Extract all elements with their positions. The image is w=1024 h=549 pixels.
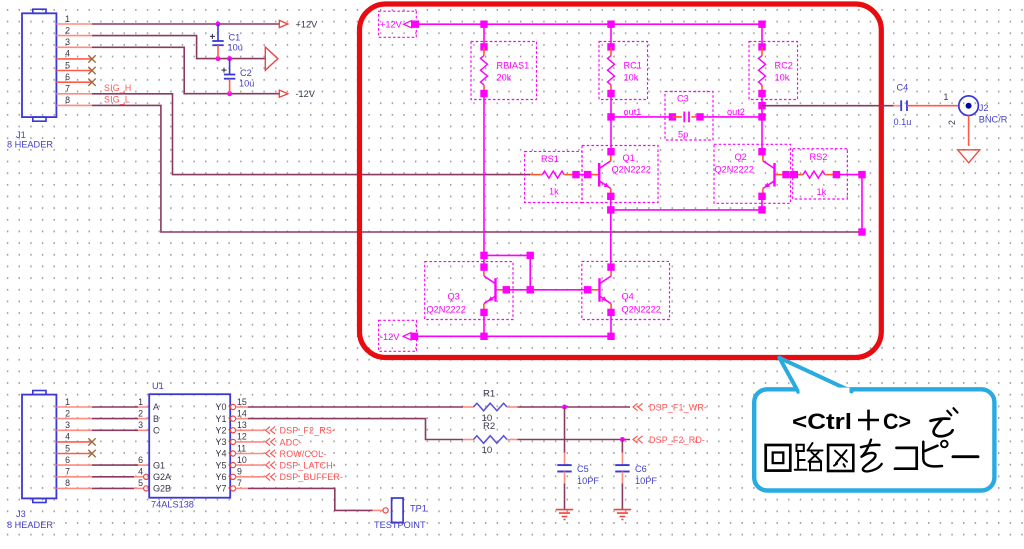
power arrow symbol (unnamed, mid rail) bbox=[265, 47, 278, 70]
no-connect X on J1 pins 4,5,6 bbox=[88, 55, 95, 86]
svg-text:RBIAS1: RBIAS1 bbox=[497, 60, 530, 70]
svg-text:DSP_F2_RD-: DSP_F2_RD- bbox=[649, 435, 705, 445]
U1 right pin names Y0-Y7, bubbles, numbers bbox=[215, 397, 246, 494]
svg-text:<Ctrl: <Ctrl bbox=[792, 409, 852, 434]
svg-text:Y1: Y1 bbox=[215, 414, 226, 424]
svg-text:Y4: Y4 bbox=[215, 449, 226, 459]
wire J2 pin 2 to ground bbox=[968, 116, 970, 147]
svg-text:G2B: G2B bbox=[153, 484, 171, 494]
transistor Q1 Q2N2222 bbox=[582, 146, 658, 203]
resistor R1 10 bbox=[463, 389, 518, 424]
svg-text:Y6: Y6 bbox=[215, 472, 226, 482]
svg-text:SIG_L: SIG_L bbox=[104, 95, 130, 105]
svg-text:C5: C5 bbox=[577, 464, 589, 474]
svg-text:Q2: Q2 bbox=[735, 152, 747, 162]
svg-text:Y3: Y3 bbox=[215, 437, 226, 447]
power symbol +12V (J1 side) bbox=[279, 19, 318, 29]
junction at C6 tap bbox=[620, 437, 625, 442]
wire Y0 to R1 bbox=[236, 406, 248, 408]
svg-text:5: 5 bbox=[65, 60, 70, 70]
svg-text:3: 3 bbox=[138, 420, 143, 430]
svg-text:TP1: TP1 bbox=[410, 504, 427, 514]
svg-text:1: 1 bbox=[65, 397, 70, 407]
svg-text:5p: 5p bbox=[678, 130, 688, 140]
svg-text:8 HEADER: 8 HEADER bbox=[7, 520, 53, 530]
capacitor C2 10u bbox=[222, 59, 255, 94]
resistor RBIAS1 20k bbox=[471, 24, 537, 99]
svg-text:A: A bbox=[153, 402, 159, 412]
wire out2 to C4 bbox=[762, 105, 894, 107]
svg-text:-12V: -12V bbox=[296, 89, 316, 99]
connector J3 bbox=[7, 391, 56, 531]
svg-text:C: C bbox=[153, 426, 160, 436]
wire base rail Q3-Q4 bbox=[506, 289, 587, 291]
svg-text:B: B bbox=[153, 414, 159, 424]
wire net SIG_H from J1 pin 7 bbox=[92, 94, 530, 175]
svg-text:DSP_F2_RS-: DSP_F2_RS- bbox=[280, 426, 336, 436]
bubble text line 1: <Ctrl+C> de bbox=[792, 408, 958, 436]
off-page connector DSP_F2_RS- (Y2) bbox=[236, 426, 335, 436]
svg-text:Q4: Q4 bbox=[622, 292, 634, 302]
svg-text:6: 6 bbox=[138, 455, 143, 465]
resistor RC1 10k bbox=[599, 24, 648, 99]
wire Y7 to TP1 bbox=[236, 487, 248, 489]
J3 pin stubs and pin numbers 1-8 bbox=[56, 397, 92, 489]
svg-text:Y5: Y5 bbox=[215, 460, 226, 470]
svg-text:15: 15 bbox=[237, 397, 247, 407]
svg-text:1: 1 bbox=[944, 92, 949, 102]
svg-text:BNC/R: BNC/R bbox=[979, 114, 1008, 124]
bubble text line 2: kairozu wo kopii bbox=[766, 440, 978, 472]
svg-text:Q2N2222: Q2N2222 bbox=[427, 305, 466, 315]
junction at C5 tap bbox=[562, 405, 567, 410]
svg-text:C3: C3 bbox=[677, 94, 689, 104]
svg-text:2: 2 bbox=[947, 120, 957, 125]
power symbol -12V (selected) bbox=[379, 320, 419, 351]
junction C1 bottom bbox=[216, 56, 221, 61]
wire Q1 emitter down bbox=[610, 196, 612, 210]
svg-text:G2A: G2A bbox=[153, 472, 171, 482]
IC U1 74ALS138 bbox=[149, 381, 230, 509]
wire +12V top rail bbox=[415, 23, 762, 25]
resistor RS2 1k bbox=[791, 149, 848, 199]
svg-text:C1: C1 bbox=[229, 32, 241, 42]
junction C2 bottom bbox=[227, 91, 232, 96]
svg-text:74ALS138: 74ALS138 bbox=[151, 500, 194, 510]
wire Y1 to R2 bbox=[236, 418, 248, 420]
svg-text:10k: 10k bbox=[624, 73, 639, 83]
testpoint TP1 bbox=[374, 498, 427, 530]
svg-text:12: 12 bbox=[237, 432, 247, 442]
svg-text:6: 6 bbox=[65, 455, 70, 465]
svg-text:C2: C2 bbox=[240, 68, 252, 78]
svg-text:10k: 10k bbox=[775, 73, 790, 83]
svg-text:R2: R2 bbox=[483, 421, 495, 432]
wire R2 to DSP_F2_RD- bbox=[518, 439, 631, 441]
svg-text:0.1u: 0.1u bbox=[894, 117, 912, 127]
svg-text:Q1: Q1 bbox=[623, 153, 635, 163]
svg-text:J3: J3 bbox=[16, 509, 26, 519]
capacitor C6 10PF bbox=[615, 440, 657, 510]
wire Q2 base to RS2 bbox=[786, 174, 794, 176]
off-page connector DSP_BUFFER- (Y6) bbox=[236, 472, 344, 482]
svg-text:7: 7 bbox=[65, 84, 70, 94]
transistor Q4 Q2N2222 bbox=[582, 261, 670, 319]
wire net SIG_L from J1 pin 8 bbox=[92, 105, 862, 232]
resistor RC2 10k bbox=[749, 24, 798, 99]
svg-text:13: 13 bbox=[237, 420, 247, 430]
svg-text:+12V: +12V bbox=[296, 19, 319, 29]
wire Q4 emitter to -12V rail bbox=[610, 312, 612, 336]
wire Q1 emitter to Q4 collector bbox=[610, 210, 612, 267]
wire Q3 collector loop to bases bbox=[484, 255, 530, 289]
svg-text:7: 7 bbox=[237, 478, 242, 488]
svg-text:ADC-: ADC- bbox=[280, 437, 302, 447]
red highlight rounded rectangle bbox=[360, 4, 882, 358]
capacitor C1 10u bbox=[210, 24, 243, 59]
svg-text:C>: C> bbox=[883, 409, 911, 434]
svg-text:Q3: Q3 bbox=[448, 292, 460, 302]
svg-text:11: 11 bbox=[237, 443, 246, 453]
wire net -12V from J1 pin 3 bbox=[92, 47, 279, 93]
svg-text:6: 6 bbox=[65, 72, 70, 82]
off-page connector ADC- (Y3) bbox=[236, 437, 302, 447]
svg-text:7: 7 bbox=[65, 467, 70, 477]
resistor R2 10 bbox=[463, 421, 518, 456]
svg-text:4: 4 bbox=[65, 432, 70, 442]
wire R1 to DSP_F1_WR- bbox=[518, 406, 631, 408]
svg-text:9: 9 bbox=[237, 467, 242, 477]
wire RS1 to Q1 base bbox=[576, 174, 588, 176]
wire Q3 collector up bbox=[483, 255, 485, 267]
svg-text:U1: U1 bbox=[152, 381, 164, 391]
svg-text:1: 1 bbox=[138, 397, 143, 407]
svg-text:3: 3 bbox=[65, 420, 70, 430]
svg-text:10: 10 bbox=[237, 455, 247, 465]
U1 left pin names and numbers bbox=[138, 397, 171, 494]
svg-text:Q2N2222: Q2N2222 bbox=[715, 165, 754, 175]
connector J2 BNC/R bbox=[959, 96, 1008, 124]
svg-text:RS1: RS1 bbox=[541, 154, 559, 164]
ground symbol at J2 bbox=[958, 150, 980, 163]
svg-text:C6: C6 bbox=[635, 464, 647, 474]
svg-text:10PF: 10PF bbox=[577, 476, 599, 486]
svg-text:8 HEADER: 8 HEADER bbox=[7, 139, 53, 149]
connector J1 bbox=[7, 9, 56, 149]
off-page connector ROW/COL- (Y4) bbox=[236, 449, 327, 459]
wire C4 to J2 pin 1 bbox=[907, 105, 959, 107]
off-page connector DSP_F2_RD- bbox=[633, 436, 643, 443]
off-page connector DSP_LATCH- (Y5) bbox=[236, 461, 336, 471]
svg-text:2: 2 bbox=[65, 408, 70, 418]
svg-text:10u: 10u bbox=[228, 43, 243, 53]
junction C2 top bbox=[227, 56, 232, 61]
wire net +12V from J1 pin 1 bbox=[92, 23, 279, 25]
ground symbol at C5 bbox=[556, 510, 573, 520]
wire RC2 bottom to Q2 collector, node out2 bbox=[761, 94, 763, 152]
svg-text:8: 8 bbox=[65, 95, 70, 105]
junction squares on top rail bbox=[480, 21, 487, 28]
off-page connector DSP_F1_WR- bbox=[633, 403, 643, 410]
svg-text:-12V: -12V bbox=[380, 332, 400, 342]
svg-text:10PF: 10PF bbox=[635, 476, 657, 486]
wire emitter rail Q1-Q2 bbox=[611, 209, 762, 211]
wires J3 pins 7,8 to U1 G2A,G2B (bubbled) bbox=[92, 474, 149, 491]
wire Q2 emitter down bbox=[761, 196, 763, 210]
svg-text:RS2: RS2 bbox=[810, 152, 828, 162]
wire RBIAS1 bottom to Q3 collector bbox=[483, 94, 485, 256]
capacitor C5 10PF bbox=[557, 407, 599, 510]
svg-text:14: 14 bbox=[237, 408, 247, 418]
svg-text:Q2N2222: Q2N2222 bbox=[612, 165, 651, 175]
svg-text:5: 5 bbox=[65, 443, 70, 453]
svg-text:10: 10 bbox=[482, 445, 493, 456]
svg-text:SIG_H: SIG_H bbox=[104, 83, 131, 93]
ground symbol at C6 bbox=[614, 510, 631, 520]
svg-text:R1: R1 bbox=[483, 389, 495, 400]
capacitor C4 0.1u bbox=[894, 83, 912, 127]
svg-text:Y0: Y0 bbox=[215, 402, 226, 412]
wire from J1 pin 2 to mid power rail bbox=[92, 36, 265, 59]
svg-text:DSP_LATCH-: DSP_LATCH- bbox=[280, 461, 336, 471]
svg-text:C4: C4 bbox=[897, 83, 909, 93]
svg-text:RC1: RC1 bbox=[624, 60, 642, 70]
speech bubble callout bbox=[754, 358, 994, 491]
svg-text:RC2: RC2 bbox=[775, 60, 793, 70]
J1 pin stubs and pin numbers 1-8 bbox=[56, 14, 92, 106]
svg-text:+12V: +12V bbox=[380, 20, 403, 30]
svg-text:5: 5 bbox=[138, 478, 143, 488]
svg-text:4: 4 bbox=[138, 467, 143, 477]
svg-text:J2: J2 bbox=[979, 103, 989, 113]
svg-text:J1: J1 bbox=[16, 130, 26, 140]
power symbol -12V (J1 side) bbox=[279, 89, 315, 99]
svg-text:4: 4 bbox=[65, 49, 70, 59]
svg-text:ROW/COL-: ROW/COL- bbox=[280, 449, 327, 459]
svg-text:TESTPOINT: TESTPOINT bbox=[374, 520, 426, 530]
transistor Q2 Q2N2222 bbox=[714, 144, 791, 203]
wire C3 to node out2 bbox=[700, 116, 762, 118]
wires J3 pins 1,2,3,6 to U1 A,B,C,G1 bbox=[92, 407, 149, 465]
svg-text:Y2: Y2 bbox=[215, 426, 226, 436]
svg-text:1k: 1k bbox=[549, 187, 559, 197]
svg-text:2: 2 bbox=[65, 25, 70, 35]
svg-text:10u: 10u bbox=[239, 78, 254, 88]
svg-text:G1: G1 bbox=[153, 460, 165, 470]
svg-text:out1: out1 bbox=[624, 107, 642, 117]
wire -12V rail (mirror emitters) bbox=[415, 335, 612, 337]
svg-text:DSP_F1_WR-: DSP_F1_WR- bbox=[649, 402, 707, 412]
resistor RS1 1k bbox=[525, 151, 582, 202]
power symbol +12V (selected, in circle) bbox=[379, 11, 420, 37]
capacitor C3 5p bbox=[665, 92, 713, 141]
junction at C1 top bbox=[216, 22, 221, 27]
wire Q3 emitter to -12V rail bbox=[483, 312, 485, 336]
transistor Q3 Q2N2222 (mirrored) bbox=[425, 262, 513, 320]
svg-text:DSP_BUFFER-: DSP_BUFFER- bbox=[280, 472, 344, 482]
svg-text:2: 2 bbox=[138, 408, 143, 418]
wire RS2 right to SIG_L corner bbox=[836, 175, 862, 232]
svg-text:1: 1 bbox=[65, 14, 70, 24]
svg-text:8: 8 bbox=[65, 478, 70, 488]
node out1 wire to C3 bbox=[611, 116, 672, 118]
no-connect X on J3 pins 4,5 bbox=[88, 438, 95, 445]
svg-text:3: 3 bbox=[65, 37, 70, 47]
svg-text:20k: 20k bbox=[497, 73, 512, 83]
wire RC1 bottom to Q1 collector, node out1 bbox=[610, 94, 612, 152]
svg-text:1k: 1k bbox=[817, 187, 827, 197]
svg-text:out2: out2 bbox=[727, 107, 745, 117]
svg-text:Y7: Y7 bbox=[215, 484, 226, 494]
svg-text:Q2N2222: Q2N2222 bbox=[622, 305, 661, 315]
